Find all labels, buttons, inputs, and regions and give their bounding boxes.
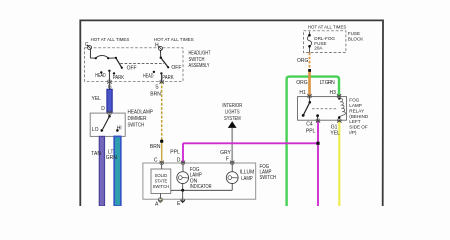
svg-text:HOT AT ALL TIMES: HOT AT ALL TIMES — [154, 37, 194, 42]
svg-text:HEAD: HEAD — [95, 73, 106, 79]
svg-text:SYSTEM: SYSTEM — [224, 116, 241, 122]
svg-text:RELAY: RELAY — [349, 108, 364, 113]
svg-text:D: D — [177, 157, 181, 163]
svg-text:PARK: PARK — [162, 75, 174, 81]
svg-text:PPL: PPL — [306, 128, 316, 134]
svg-text:GRY: GRY — [220, 150, 231, 156]
svg-text:STATE: STATE — [155, 179, 168, 184]
svg-text:SWITCH: SWITCH — [189, 57, 205, 63]
svg-text:DIMMER: DIMMER — [128, 116, 147, 122]
svg-text:G1: G1 — [331, 124, 338, 130]
svg-text:LAMP: LAMP — [241, 176, 253, 182]
svg-text:H3: H3 — [330, 90, 337, 96]
svg-text:BRN: BRN — [150, 92, 161, 98]
svg-text:HEADLAMP: HEADLAMP — [128, 110, 154, 116]
svg-text:OFF: OFF — [171, 65, 181, 71]
svg-text:LAMP: LAMP — [349, 103, 362, 108]
svg-text:(BEHIND: (BEHIND — [349, 114, 369, 119]
svg-text:ASSEMBLY: ASSEMBLY — [189, 63, 211, 69]
svg-text:HI: HI — [117, 126, 122, 132]
svg-text:PPL: PPL — [170, 149, 180, 155]
svg-text:BRN: BRN — [150, 144, 161, 150]
svg-text:LEFT: LEFT — [349, 119, 360, 124]
svg-text:PARK: PARK — [113, 75, 125, 81]
svg-text:FOG: FOG — [349, 98, 359, 103]
svg-text:ORG: ORG — [297, 58, 309, 64]
svg-text:G: G — [108, 85, 112, 91]
svg-text:C4: C4 — [306, 122, 313, 128]
svg-text:H1: H1 — [299, 90, 306, 96]
svg-text:SIDE OF: SIDE OF — [349, 125, 368, 130]
svg-text:FUSE: FUSE — [348, 31, 360, 36]
svg-text:GRN: GRN — [106, 155, 118, 161]
svg-text:F: F — [226, 157, 229, 163]
svg-text:LIGHTS: LIGHTS — [225, 110, 240, 116]
svg-text:SWITCH: SWITCH — [260, 175, 277, 181]
svg-text:HOT AT ALL TIMES: HOT AT ALL TIMES — [91, 37, 130, 42]
svg-text:HEADLIGHT: HEADLIGHT — [189, 51, 211, 57]
svg-text:YEL: YEL — [330, 131, 340, 137]
svg-text:ILLUM: ILLUM — [240, 169, 255, 175]
svg-text:HEAD: HEAD — [143, 74, 154, 80]
svg-text:TAN: TAN — [91, 151, 101, 157]
svg-text:INDICATOR: INDICATOR — [190, 184, 212, 190]
svg-text:SWITCH: SWITCH — [128, 123, 145, 129]
svg-text:D: D — [101, 106, 105, 112]
svg-text:SOLID: SOLID — [155, 173, 168, 178]
svg-text:YEL: YEL — [92, 96, 102, 102]
svg-text:C: C — [85, 42, 89, 48]
svg-text:OFF: OFF — [127, 66, 137, 72]
svg-text:H: H — [155, 43, 159, 49]
svg-text:SWITCH: SWITCH — [153, 184, 170, 189]
svg-text:C: C — [154, 157, 158, 163]
svg-text:ORG: ORG — [296, 80, 308, 86]
svg-text:LO: LO — [92, 127, 99, 133]
svg-text:LT GRN: LT GRN — [320, 80, 335, 86]
svg-text:HOT AT ALL TIMES: HOT AT ALL TIMES — [308, 25, 346, 30]
svg-text:20A: 20A — [314, 46, 323, 51]
svg-text:I/P): I/P) — [349, 130, 357, 135]
svg-text:BLOCK: BLOCK — [348, 37, 365, 42]
svg-text:INTERIOR: INTERIOR — [222, 103, 242, 109]
